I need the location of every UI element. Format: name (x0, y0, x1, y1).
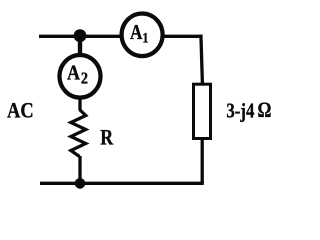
svg-text:AC: AC (7, 99, 34, 123)
svg-text:R: R (100, 126, 113, 150)
svg-text:3-j4: 3-j4 (226, 99, 254, 122)
svg-text:Ω: Ω (258, 98, 272, 123)
